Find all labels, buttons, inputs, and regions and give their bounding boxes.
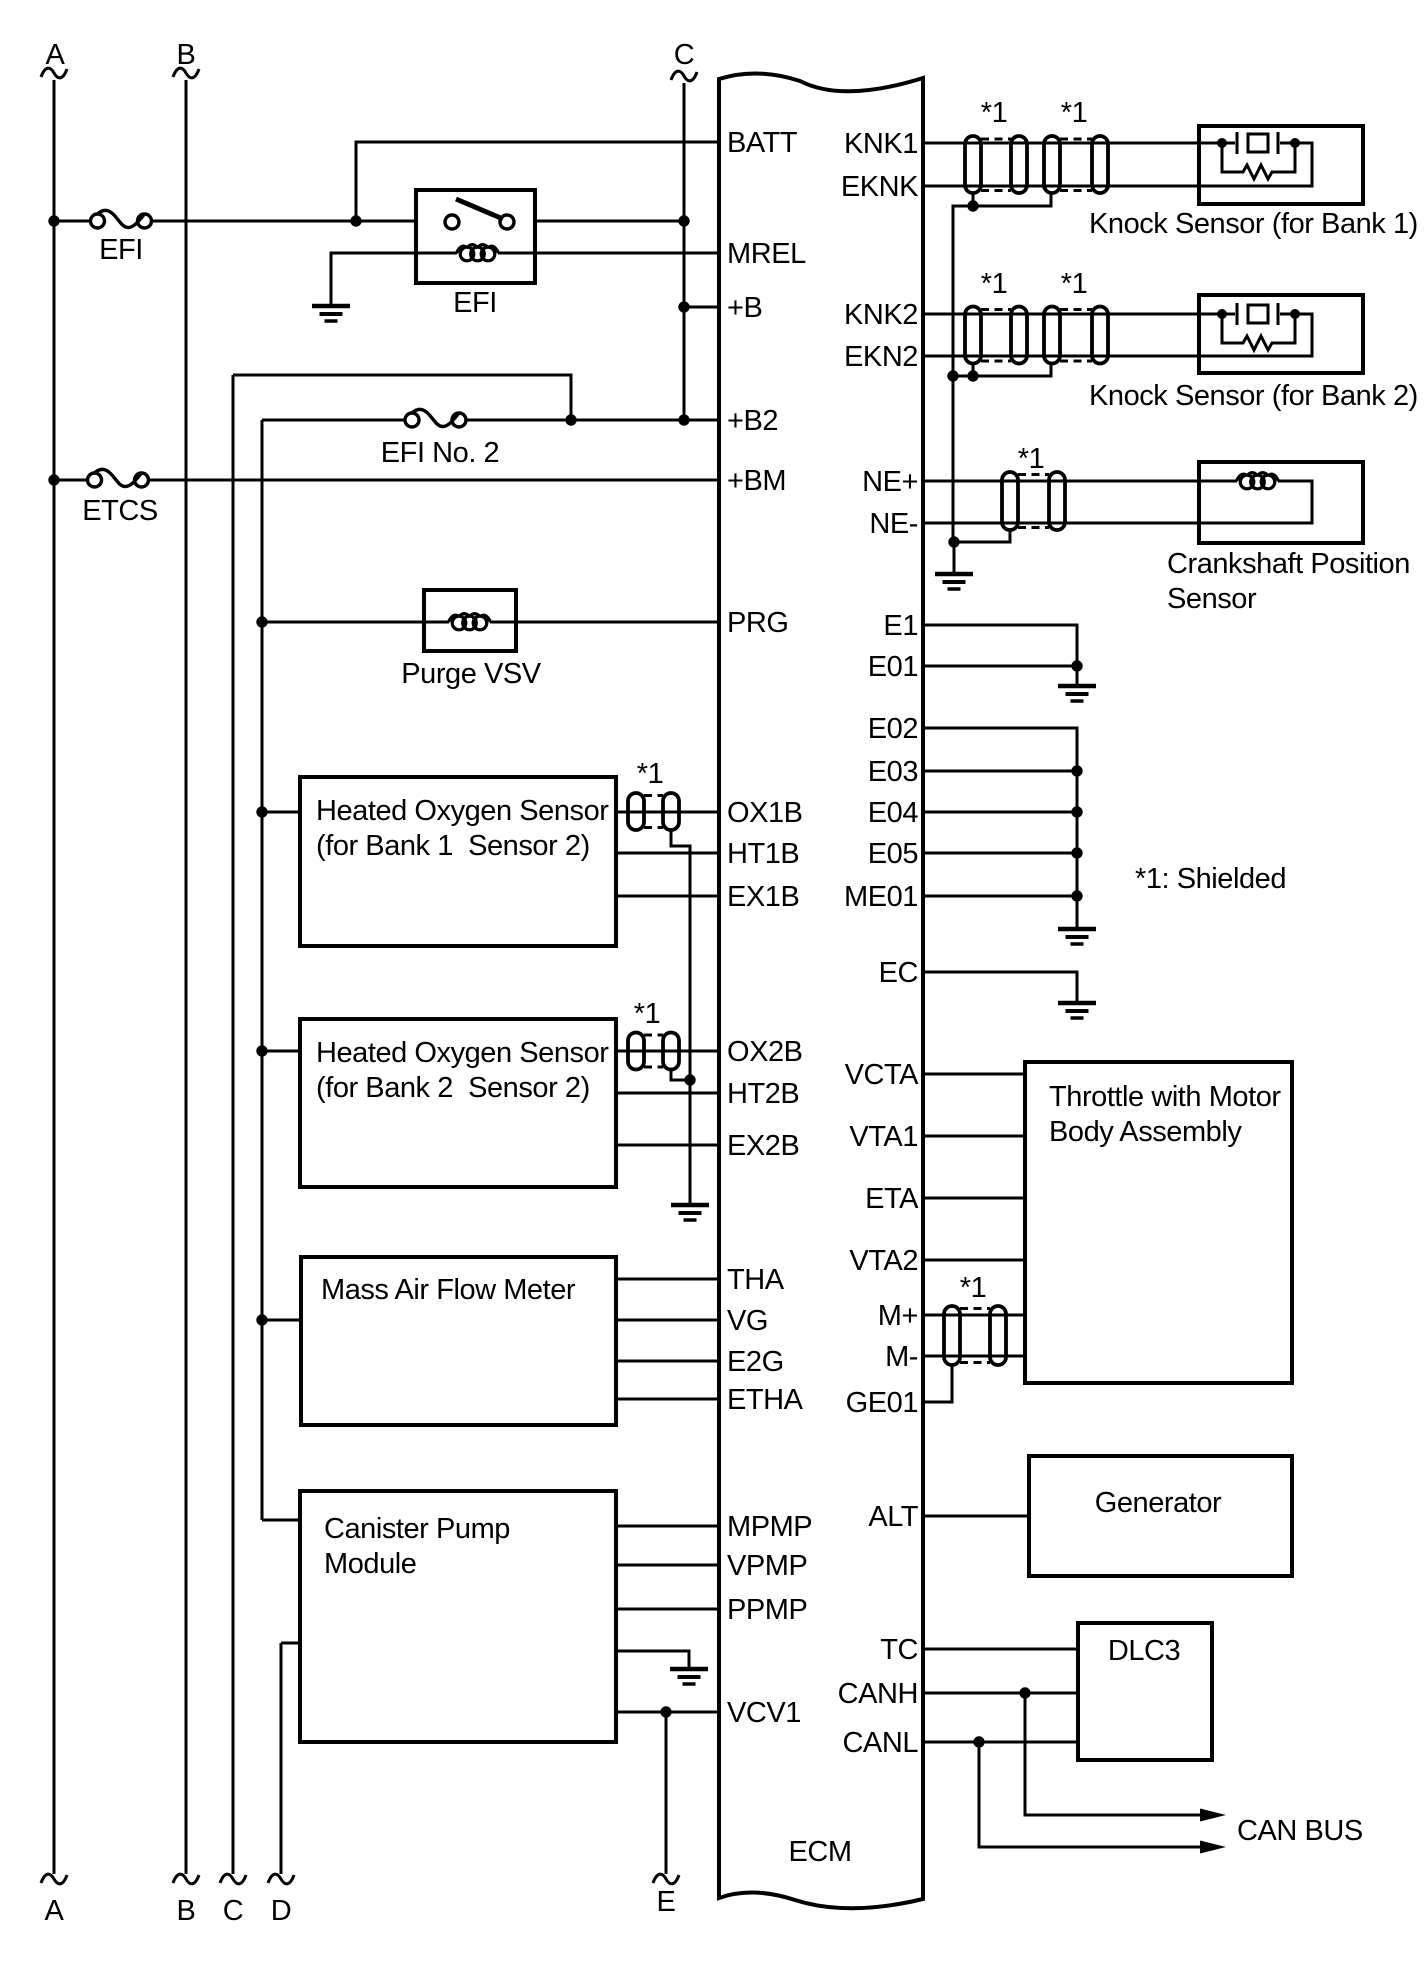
ground knock/NE shields bbox=[935, 574, 973, 589]
wire GE01 shield drain bbox=[923, 1365, 952, 1402]
component Heated Oxygen Sensor bank1 box bbox=[300, 777, 616, 946]
shield pill M left bbox=[944, 1306, 960, 1365]
relay switch blade bbox=[456, 199, 503, 219]
svg-text:ALT: ALT bbox=[868, 1501, 918, 1533]
junction feed x MAF row bbox=[256, 1314, 267, 1325]
wire EX2B bbox=[616, 1144, 719, 1147]
svg-text:ECM: ECM bbox=[788, 1836, 851, 1868]
svg-text:*1: *1 bbox=[637, 758, 664, 790]
svg-text:*1: *1 bbox=[1061, 97, 1088, 129]
shield pills KNK2 section2 bbox=[1044, 307, 1060, 364]
wire canister feed D bbox=[281, 1642, 300, 1645]
wire E1 bbox=[923, 625, 1077, 666]
knock2 node left bbox=[1217, 309, 1227, 319]
svg-text:ETA: ETA bbox=[865, 1183, 919, 1215]
wire CANL to CAN BUS bbox=[979, 1742, 1201, 1847]
svg-text:NE-: NE- bbox=[869, 508, 918, 540]
shield dashes K2 s2 bbox=[1060, 308, 1092, 311]
svg-text:EC: EC bbox=[879, 957, 918, 989]
relay coil L1 bbox=[457, 245, 499, 261]
component Heated Oxygen Sensor bank2 box bbox=[300, 1019, 616, 1187]
wire EX1B bbox=[616, 895, 719, 898]
svg-text:E04: E04 bbox=[868, 797, 919, 829]
svg-text:E2G: E2G bbox=[727, 1346, 784, 1378]
wire PRG row bbox=[262, 621, 449, 624]
svg-text:BATT: BATT bbox=[727, 127, 798, 159]
wire rail D bottom segment bbox=[280, 1643, 283, 1874]
component Knock Sensor bank2 box bbox=[1199, 295, 1363, 373]
wire VPMP bbox=[616, 1564, 719, 1567]
svg-text:*1: *1 bbox=[981, 97, 1008, 129]
junction E03 bbox=[1071, 765, 1082, 776]
wire E2G bbox=[616, 1360, 719, 1363]
wire HO2S2 feed bbox=[262, 1050, 300, 1053]
svg-text:D: D bbox=[271, 1895, 292, 1927]
wire TC bbox=[923, 1648, 1078, 1651]
shield dashes M bbox=[960, 1307, 990, 1310]
arrow CANH bbox=[1200, 1809, 1226, 1822]
wire E04 bbox=[923, 811, 1077, 814]
knock2 resistor loop bbox=[1222, 314, 1295, 350]
svg-text:Knock Sensor (for Bank 1): Knock Sensor (for Bank 1) bbox=[1089, 208, 1418, 240]
wire VCTA bbox=[923, 1073, 1025, 1076]
node B (bottom connector) bbox=[173, 1874, 199, 1884]
wire +B2 bypass branch bbox=[233, 375, 571, 420]
junction K2 drain a bbox=[947, 370, 958, 381]
junction rail A x EFI fuse row bbox=[48, 215, 59, 226]
wire M+ bbox=[923, 1314, 1025, 1317]
fuse EFI F1 bbox=[91, 210, 152, 228]
svg-text:A: A bbox=[46, 39, 66, 71]
node E (bottom connector) bbox=[653, 1874, 679, 1884]
svg-text:C: C bbox=[223, 1895, 244, 1927]
svg-text:ETHA: ETHA bbox=[727, 1384, 804, 1416]
wire KNK1 bbox=[923, 142, 1222, 145]
wire VTA1 bbox=[923, 1135, 1025, 1138]
solenoid Purge VSV coil L2 bbox=[449, 614, 491, 630]
svg-text:E05: E05 bbox=[868, 838, 918, 870]
svg-text:EFI: EFI bbox=[99, 234, 143, 266]
wire NE- and coil return bbox=[923, 481, 1312, 523]
wire EKNK bbox=[923, 143, 1312, 186]
wire EKN2 bbox=[923, 314, 1312, 356]
wire THA bbox=[616, 1278, 719, 1281]
knock1 resistor loop bbox=[1222, 143, 1295, 179]
wire HT2B bbox=[616, 1092, 719, 1095]
wire EFI No.2 row / +B2 bbox=[262, 419, 405, 422]
component Canister Pump Module box bbox=[300, 1491, 616, 1742]
svg-text:+B2: +B2 bbox=[727, 405, 778, 437]
wire E01 bbox=[923, 665, 1077, 668]
junction rail C x +B2 row bbox=[678, 414, 689, 425]
wire K2 shield drain bbox=[972, 364, 975, 377]
wire canister ground pin bbox=[616, 1651, 689, 1669]
junction ME01 bbox=[1071, 890, 1082, 901]
svg-text:KNK1: KNK1 bbox=[844, 128, 918, 160]
wire ETA bbox=[923, 1197, 1025, 1200]
svg-text:EKN2: EKN2 bbox=[844, 341, 918, 373]
wire VG bbox=[616, 1319, 719, 1322]
svg-text:VPMP: VPMP bbox=[727, 1550, 807, 1582]
wire BATT feed bbox=[356, 142, 719, 221]
crank sensor pickup coil L3 bbox=[1237, 473, 1279, 489]
wire E03 bbox=[923, 770, 1077, 773]
wire relay coil to MREL bbox=[498, 252, 719, 255]
wire VTA2 bbox=[923, 1259, 1025, 1262]
svg-text:VTA2: VTA2 bbox=[849, 1245, 918, 1277]
junction feed x OX2B row bbox=[256, 1045, 267, 1056]
svg-text:+BM: +BM bbox=[727, 465, 786, 497]
svg-text:Heated Oxygen Sensor: Heated Oxygen Sensor bbox=[316, 795, 609, 827]
svg-text:Generator: Generator bbox=[1095, 1487, 1222, 1519]
svg-text:MREL: MREL bbox=[727, 238, 806, 270]
svg-text:E03: E03 bbox=[868, 756, 918, 788]
ground EC bbox=[1058, 1003, 1096, 1018]
solenoid Purge VSV box bbox=[424, 590, 516, 651]
svg-text:Purge VSV: Purge VSV bbox=[401, 658, 542, 690]
wire E01 ground stub bbox=[1076, 666, 1079, 686]
shield dashes K1 s2 bbox=[1060, 138, 1092, 141]
wire OX1B shield drain bbox=[671, 830, 690, 1080]
ECM connector body U1 bbox=[719, 73, 923, 1908]
junction K2 drain b bbox=[967, 370, 978, 381]
wire MPMP bbox=[616, 1525, 719, 1528]
shield pill OX1B right bbox=[663, 793, 679, 830]
relay contact left bbox=[445, 215, 459, 229]
wire KNK2 bbox=[923, 313, 1222, 316]
shield dashes OX1B bbox=[644, 794, 663, 797]
junction feed x OX1B row bbox=[256, 806, 267, 817]
svg-text:EX2B: EX2B bbox=[727, 1130, 799, 1162]
svg-text:VCTA: VCTA bbox=[845, 1059, 919, 1091]
svg-text:E01: E01 bbox=[868, 651, 918, 683]
relay contact right bbox=[500, 215, 514, 229]
svg-text:EX1B: EX1B bbox=[727, 881, 799, 913]
svg-text:M-: M- bbox=[885, 1341, 918, 1373]
node D (bottom connector) bbox=[268, 1874, 294, 1884]
svg-text:Sensor: Sensor bbox=[1167, 583, 1257, 615]
wire ALT bbox=[923, 1515, 1029, 1518]
shield dashes K2 s1 bbox=[981, 308, 1011, 311]
wire M- bbox=[923, 1355, 1025, 1358]
svg-text:Module: Module bbox=[324, 1548, 416, 1580]
svg-text:Heated Oxygen Sensor: Heated Oxygen Sensor bbox=[316, 1037, 609, 1069]
node C (bottom connector) bbox=[220, 1874, 246, 1884]
fuse ETCS F3 bbox=[88, 469, 149, 487]
svg-text:GE01: GE01 bbox=[846, 1387, 918, 1419]
relay EFI box bbox=[416, 190, 535, 283]
wire E02-ME01 ground bus bbox=[1076, 771, 1079, 929]
junction BATT feed on EFI row bbox=[350, 215, 361, 226]
wire O2 drain to ground bbox=[689, 1080, 692, 1205]
component Throttle with Motor Body Assembly box bbox=[1025, 1062, 1292, 1383]
svg-text:(for Bank 2 Sensor 2): (for Bank 2 Sensor 2) bbox=[316, 1072, 590, 1104]
component Crankshaft Position Sensor box bbox=[1199, 462, 1363, 543]
svg-text:NE+: NE+ bbox=[862, 466, 918, 498]
svg-text:*1: *1 bbox=[981, 268, 1008, 300]
wire VCV1 bbox=[616, 1711, 719, 1714]
svg-text:EKNK: EKNK bbox=[841, 171, 919, 203]
junction relay output x rail C bbox=[678, 215, 689, 226]
svg-text:CANH: CANH bbox=[838, 1678, 918, 1710]
node A (bottom connector) bbox=[41, 1874, 67, 1884]
component DLC3 box bbox=[1078, 1623, 1212, 1760]
wire canister feed bbox=[262, 1519, 300, 1522]
junction feed x PRG row bbox=[256, 616, 267, 627]
wire NE+ bbox=[923, 480, 1237, 483]
wire shield drain bus bbox=[952, 376, 955, 542]
svg-text:C: C bbox=[674, 39, 695, 71]
wire MAF feed bbox=[262, 1319, 301, 1322]
knock1 piezo element bbox=[1222, 132, 1295, 154]
svg-text:EFI No. 2: EFI No. 2 bbox=[381, 437, 499, 469]
svg-text:VCV1: VCV1 bbox=[727, 1697, 801, 1729]
svg-text:B: B bbox=[177, 1895, 196, 1927]
ground O2 shields bbox=[671, 1205, 709, 1220]
shield dashes NE bbox=[1018, 473, 1049, 476]
wire relay coil left lead bbox=[331, 253, 457, 306]
junction CANH bbox=[1019, 1687, 1030, 1698]
wire ETCS / +BM row bbox=[54, 479, 88, 482]
junction rail A x ETCS row bbox=[48, 474, 59, 485]
component Knock Sensor bank1 box bbox=[1199, 126, 1363, 204]
wire rail A bbox=[53, 80, 56, 1874]
svg-text:*1: *1 bbox=[1018, 443, 1045, 475]
svg-text:Body Assembly: Body Assembly bbox=[1049, 1116, 1242, 1148]
svg-text:Knock Sensor (for Bank 2): Knock Sensor (for Bank 2) bbox=[1089, 380, 1418, 412]
wire ETHA bbox=[616, 1398, 719, 1401]
wire NE shield drain bbox=[954, 530, 1010, 542]
svg-text:*1: *1 bbox=[634, 998, 661, 1030]
svg-text:EFI: EFI bbox=[453, 287, 497, 319]
svg-text:*1: *1 bbox=[1061, 268, 1088, 300]
svg-text:THA: THA bbox=[727, 1264, 785, 1296]
junction NE drain on bus bbox=[948, 536, 959, 547]
wire PPMP bbox=[616, 1608, 719, 1611]
svg-text:PPMP: PPMP bbox=[727, 1594, 807, 1626]
component Generator box bbox=[1029, 1456, 1292, 1576]
svg-text:A: A bbox=[45, 1895, 65, 1927]
svg-text:MPMP: MPMP bbox=[727, 1511, 812, 1543]
svg-text:OX2B: OX2B bbox=[727, 1036, 803, 1068]
svg-text:Canister Pump: Canister Pump bbox=[324, 1513, 510, 1545]
knock2 piezo element bbox=[1222, 303, 1295, 325]
shield dashes OX2B bbox=[644, 1034, 663, 1037]
svg-text:E1: E1 bbox=[883, 610, 918, 642]
wire E02 bbox=[923, 728, 1077, 771]
junction E01 ground bbox=[1071, 660, 1082, 671]
shield pills KNK2 section1 bbox=[965, 307, 981, 364]
wire OX2B bbox=[616, 1050, 719, 1053]
component Mass Air Flow Meter box bbox=[301, 1257, 616, 1425]
junction bypass x EFI No.2 row bbox=[565, 414, 576, 425]
svg-text:E: E bbox=[657, 1886, 676, 1918]
knock1 node left bbox=[1217, 138, 1227, 148]
wire HO2S1 feed bbox=[262, 811, 300, 814]
svg-text:M+: M+ bbox=[878, 1300, 918, 1332]
svg-text:*1: Shielded: *1: Shielded bbox=[1135, 863, 1286, 895]
arrow CANL bbox=[1200, 1841, 1226, 1854]
shield pill OX1B left bbox=[628, 793, 644, 830]
svg-text:(for Bank 1 Sensor 2): (for Bank 1 Sensor 2) bbox=[316, 830, 590, 862]
wire OX2B shield drain bbox=[671, 1070, 690, 1081]
junction +B on rail C bbox=[678, 301, 689, 312]
shield pill NE left bbox=[1002, 472, 1018, 530]
junction E05 bbox=[1071, 847, 1082, 858]
svg-text:Throttle with Motor: Throttle with Motor bbox=[1049, 1081, 1281, 1113]
svg-text:+B: +B bbox=[727, 292, 762, 324]
svg-text:KNK2: KNK2 bbox=[844, 299, 918, 331]
wire K1 shield drain bbox=[972, 193, 975, 206]
wire HT1B bbox=[616, 852, 719, 855]
svg-text:Crankshaft Position: Crankshaft Position bbox=[1167, 548, 1410, 580]
wire CANH bbox=[923, 1692, 1078, 1695]
ground E1/E01 bbox=[1058, 686, 1096, 701]
svg-text:CAN BUS: CAN BUS bbox=[1237, 1815, 1363, 1847]
svg-text:PRG: PRG bbox=[727, 607, 789, 639]
knock2 node right bbox=[1290, 309, 1300, 319]
shield pill OX2B right bbox=[663, 1033, 679, 1070]
wire rail B bbox=[185, 80, 188, 1874]
wire ME01 bbox=[923, 895, 1077, 898]
svg-text:*1: *1 bbox=[960, 1272, 987, 1304]
shield pill OX2B left bbox=[628, 1033, 644, 1070]
wire NE drain stub bbox=[953, 542, 956, 574]
ground relay coil bbox=[312, 306, 350, 321]
svg-text:DLC3: DLC3 bbox=[1108, 1635, 1180, 1667]
svg-text:TC: TC bbox=[880, 1634, 918, 1666]
svg-text:OX1B: OX1B bbox=[727, 797, 803, 829]
ground canister pump bbox=[670, 1669, 708, 1684]
wire +B pin bbox=[684, 306, 719, 309]
shield pills KNK1 section1 bbox=[965, 136, 981, 193]
wire E05 bbox=[923, 852, 1077, 855]
wire OX1B bbox=[616, 811, 719, 814]
wire EFI fuse row bbox=[54, 220, 91, 223]
svg-text:Mass Air Flow Meter: Mass Air Flow Meter bbox=[321, 1274, 576, 1306]
ground E02-ME01 bbox=[1058, 929, 1096, 944]
svg-text:B: B bbox=[177, 39, 196, 71]
svg-text:VTA1: VTA1 bbox=[849, 1121, 918, 1153]
wire CANH to CAN BUS bbox=[1025, 1693, 1201, 1815]
svg-text:VG: VG bbox=[727, 1305, 768, 1337]
wire rail C bottom segment bbox=[232, 375, 235, 1874]
shield dashes K1 s1 bbox=[981, 138, 1011, 141]
svg-text:ETCS: ETCS bbox=[82, 495, 158, 527]
svg-text:CANL: CANL bbox=[842, 1727, 918, 1759]
junction E04 bbox=[1071, 806, 1082, 817]
fuse EFI No.2 F2 bbox=[405, 409, 466, 427]
knock1 node right bbox=[1290, 138, 1300, 148]
wire CANL bbox=[923, 1741, 1078, 1744]
wire rail C top segment bbox=[683, 83, 686, 420]
svg-text:HT1B: HT1B bbox=[727, 838, 799, 870]
junction VCV1 x rail E bbox=[660, 1706, 671, 1717]
svg-text:HT2B: HT2B bbox=[727, 1078, 799, 1110]
junction CANL bbox=[973, 1736, 984, 1747]
svg-text:ME01: ME01 bbox=[844, 881, 918, 913]
shield pill M right bbox=[990, 1306, 1006, 1365]
junction K1 drain bbox=[967, 200, 978, 211]
wire EC bbox=[923, 972, 1077, 1003]
svg-text:E02: E02 bbox=[868, 713, 918, 745]
junction O2 shield drains bbox=[684, 1074, 695, 1085]
wire rail E bottom segment bbox=[665, 1712, 668, 1874]
shield pills KNK1 section2 bbox=[1044, 136, 1060, 193]
shield pill NE right bbox=[1049, 472, 1065, 530]
